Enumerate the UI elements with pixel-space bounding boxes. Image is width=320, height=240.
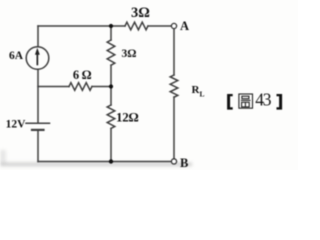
terminal B circle [171, 159, 176, 164]
wire top left horizontal [38, 25, 125, 27]
current source I1 circle [26, 47, 49, 70]
wire left column mid [37, 69, 39, 122]
svg-text:3Ω: 3Ω [131, 5, 150, 21]
svg-text:12Ω: 12Ω [116, 110, 139, 125]
junction dot middle [109, 84, 113, 88]
resistor 3ohm vertical middle [107, 40, 115, 65]
current source arrow [35, 48, 40, 66]
svg-text:3Ω: 3Ω [122, 48, 137, 60]
resistor RL vertical [170, 75, 178, 97]
wire top right to node A [148, 25, 171, 27]
svg-text:A: A [180, 19, 189, 33]
wire 6ohm branch left [38, 86, 69, 88]
figure caption bracket left [227, 94, 233, 110]
terminal A circle [171, 23, 176, 28]
junction dot bottom [109, 159, 113, 163]
battery V1 plate short [32, 129, 44, 131]
wire right column lower [173, 97, 175, 159]
svg-text:B: B [180, 156, 188, 170]
svg-text:12V: 12V [6, 119, 27, 131]
svg-text:L: L [200, 90, 205, 99]
wire left column upper [37, 26, 39, 47]
wire 6ohm branch right [92, 86, 111, 88]
wire middle column bottom [110, 129, 112, 162]
figure caption bracket right [277, 94, 283, 110]
junction dot top [109, 24, 113, 28]
figure caption character tu (drawing) [239, 94, 253, 108]
wire middle column mid [110, 65, 112, 105]
wire left column lower [37, 131, 39, 161]
svg-text:6A: 6A [9, 50, 24, 62]
svg-text:6 Ω: 6 Ω [73, 68, 92, 82]
battery V1 plate long [26, 122, 50, 124]
resistor 3ohm horizontal top [125, 22, 148, 30]
wire middle column top [110, 26, 112, 40]
wire right column upper [173, 29, 175, 75]
scan shadow under bottom wire [0, 150, 192, 166]
svg-text:43: 43 [255, 89, 272, 109]
wire bottom [38, 161, 171, 163]
resistor 12ohm vertical [107, 105, 115, 128]
resistor 6ohm horizontal [69, 83, 92, 91]
